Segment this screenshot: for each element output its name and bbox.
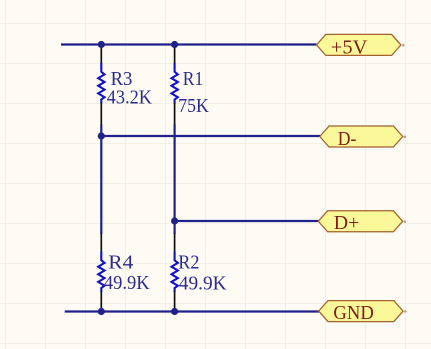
D+ port outline (318, 211, 402, 232)
R2 pin 2 (174, 292, 176, 312)
resistor R1 (172, 45, 209, 125)
junction top-right (171, 41, 178, 48)
R4 pin 2 (100, 292, 102, 312)
R4 pin 1 (100, 234, 102, 253)
svg-text:GND: GND (333, 302, 373, 324)
D- port connection speck (404, 136, 407, 139)
GND port connection speck (404, 310, 407, 313)
svg-text:49.9K: 49.9K (179, 274, 227, 295)
svg-text:75K: 75K (178, 96, 209, 117)
wire D+ rail (175, 220, 319, 222)
D+ port connection speck (404, 220, 407, 223)
junction bottom-left (98, 308, 105, 315)
junction D- (98, 132, 105, 139)
+5V port outline (317, 34, 401, 55)
resistor R2 (172, 234, 227, 312)
svg-text:D-: D- (338, 128, 357, 150)
R2 body (172, 252, 178, 293)
wire vertical D- net segment (100, 125, 102, 235)
R4 body (98, 252, 104, 293)
junction top-left (98, 41, 105, 48)
wire +5V top rail (61, 43, 317, 45)
R1 body (172, 63, 178, 104)
R3 body (98, 63, 104, 104)
R1 pin 2 (174, 103, 176, 125)
R3 pin 1 (100, 45, 102, 64)
R3 pin 2 (100, 103, 102, 125)
wire vertical D+ net segment (174, 125, 176, 235)
port +5V (net +5V) (317, 34, 405, 58)
port D+ (net D+) (318, 211, 406, 234)
resistor R3 (98, 45, 152, 125)
svg-text:43.2K: 43.2K (107, 87, 152, 108)
svg-text:49.9K: 49.9K (104, 273, 150, 294)
resistor R4 (98, 234, 150, 312)
svg-text:R1: R1 (183, 69, 203, 90)
wire GND bottom rail (65, 310, 319, 312)
svg-text:+5V: +5V (331, 36, 368, 58)
R1 pin 1 (174, 45, 176, 64)
svg-text:D+: D+ (334, 212, 360, 234)
port D- (net D-) (320, 126, 406, 150)
D- port outline (320, 126, 403, 147)
GND port outline (319, 301, 403, 322)
port GND (net GND) (319, 301, 407, 325)
svg-text:R2: R2 (178, 253, 199, 274)
+5V port connection speck (402, 44, 405, 47)
junction bottom-right (171, 308, 178, 315)
svg-text:R4: R4 (108, 253, 133, 274)
R2 pin 1 (174, 234, 176, 253)
junction D+ (171, 217, 178, 224)
wire D- rail (101, 135, 320, 137)
